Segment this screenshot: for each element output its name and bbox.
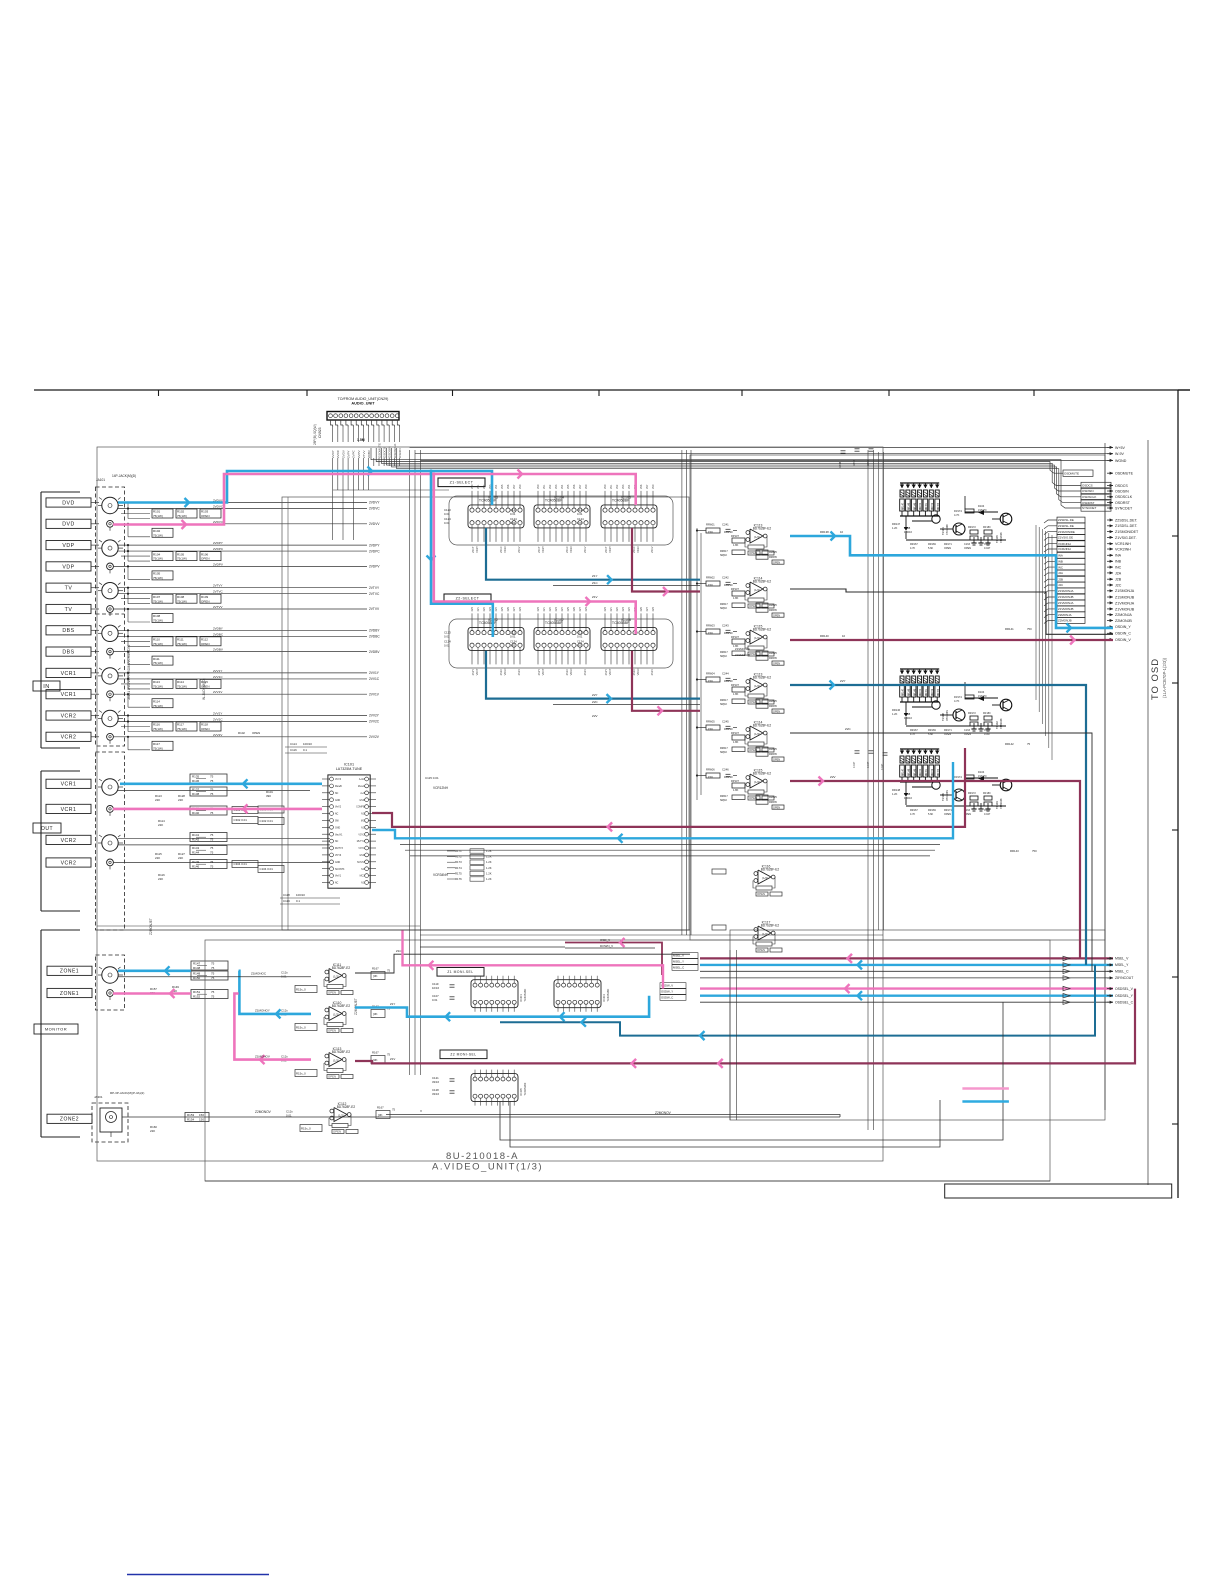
wire OSDIN_Y (blue) bbox=[790, 536, 1113, 628]
svg-text:2S1C: 2S1C bbox=[499, 669, 503, 676]
svg-text:TR102: TR102 bbox=[995, 721, 999, 729]
op-amp IC113 (BD7628F-E2) bbox=[329, 1053, 342, 1067]
svg-text:75(1W): 75(1W) bbox=[153, 576, 163, 580]
svg-text:RP137: RP137 bbox=[731, 731, 739, 735]
svg-text:RP137: RP137 bbox=[731, 779, 739, 783]
wires MSEL/OSDSEL to edge bbox=[700, 957, 1113, 959]
svg-text:RR617: RR617 bbox=[720, 651, 728, 654]
svg-text:Z1SMONJA: Z1SMONJA bbox=[735, 647, 750, 651]
svg-text:OSDSIN: OSDSIN bbox=[1082, 489, 1094, 493]
svg-text:R141: R141 bbox=[192, 833, 200, 837]
svg-text:TR101: TR101 bbox=[941, 527, 945, 535]
svg-text:2V0: 2V0 bbox=[604, 484, 607, 489]
svg-text:RR602: RR602 bbox=[706, 576, 715, 580]
svg-text:RR635: RR635 bbox=[769, 801, 777, 804]
svg-text:750: 750 bbox=[1027, 627, 1032, 631]
svg-text:Z1SMONIDE: Z1SMONIDE bbox=[1058, 530, 1075, 534]
svg-text:2VDPY: 2VDPY bbox=[369, 543, 380, 547]
svg-text:TC4053BF: TC4053BF bbox=[612, 499, 630, 503]
svg-text:75: 75 bbox=[211, 990, 215, 994]
svg-text:OPEN: OPEN bbox=[328, 1075, 336, 1079]
svg-text:75(1W): 75(1W) bbox=[177, 599, 187, 603]
svg-text:RR150: RR150 bbox=[920, 688, 922, 696]
svg-text:Z1VSIG.DET.: Z1VSIG.DET. bbox=[1115, 536, 1137, 540]
wire Z1MONOV (pink) bbox=[113, 992, 191, 995]
svg-text:Z1MONOY: Z1MONOY bbox=[255, 1009, 270, 1013]
svg-text:R154: R154 bbox=[187, 1117, 195, 1121]
svg-text:Z1C: Z1C bbox=[592, 581, 599, 585]
svg-text:2VPC: 2VPC bbox=[352, 449, 356, 458]
svg-text:FR174: FR174 bbox=[954, 695, 962, 699]
svg-text:A+9: A+9 bbox=[360, 792, 365, 795]
svg-text:2S1V: 2S1V bbox=[650, 669, 654, 676]
svg-text:1.5M: 1.5M bbox=[357, 438, 365, 442]
svg-text:4.7K: 4.7K bbox=[910, 813, 915, 816]
svg-text:R171: R171 bbox=[455, 849, 462, 853]
svg-text:RR625: RR625 bbox=[769, 652, 777, 655]
svg-text:33/16: 33/16 bbox=[839, 461, 842, 468]
svg-text:OSDSEL_V: OSDSEL_V bbox=[1115, 987, 1134, 991]
svg-text:RR617: RR617 bbox=[720, 603, 728, 606]
svg-text:OSDCS: OSDCS bbox=[1115, 484, 1128, 488]
svg-text:SCONT3: SCONT3 bbox=[335, 869, 345, 871]
svg-text:RR138: RR138 bbox=[820, 530, 829, 534]
svg-text:2VDC: 2VDC bbox=[336, 449, 340, 458]
svg-text:C163: C163 bbox=[964, 543, 971, 546]
svg-text:Z1SMONJB: Z1SMONJB bbox=[735, 653, 750, 657]
svg-text:2VTVC: 2VTVC bbox=[213, 590, 224, 594]
wire Z2V (maroon) bbox=[632, 651, 700, 711]
svg-text:RR152: RR152 bbox=[932, 502, 934, 510]
svg-text:2V7: 2V7 bbox=[579, 606, 582, 611]
svg-text:VD1C: VD1C bbox=[636, 546, 640, 553]
svg-text:R167: R167 bbox=[372, 967, 379, 971]
svg-text:75: 75 bbox=[210, 811, 214, 815]
svg-text:VCR1INH: VCR1INH bbox=[1115, 542, 1131, 546]
svg-text:SR[1K: SR[1K bbox=[720, 751, 728, 754]
svg-text:RR147: RR147 bbox=[903, 768, 905, 776]
svg-text:MSEL_Y: MSEL_Y bbox=[673, 960, 684, 964]
svg-text:R140: R140 bbox=[192, 811, 200, 815]
wire zone2 out bbox=[386, 1115, 840, 1118]
svg-text:RR148: RR148 bbox=[909, 688, 911, 696]
svg-text:C302 0.01: C302 0.01 bbox=[234, 818, 248, 822]
IC IC304 (TC4053BF) monitor select bbox=[554, 980, 601, 1008]
svg-text:2V0: 2V0 bbox=[519, 606, 522, 611]
svg-text:C243: C243 bbox=[722, 624, 729, 628]
svg-text:MSEL_C: MSEL_C bbox=[1115, 970, 1129, 974]
svg-text:75: 75 bbox=[210, 788, 214, 792]
svg-text:R149: R149 bbox=[193, 972, 201, 976]
svg-text:R116: R116 bbox=[153, 723, 160, 727]
svg-text:OSDSEL_C: OSDSEL_C bbox=[1115, 1001, 1134, 1005]
svg-text:OSDW_C: OSDW_C bbox=[661, 996, 673, 1000]
svg-text:390: 390 bbox=[266, 794, 271, 798]
IN bracket bbox=[40, 492, 42, 748]
svg-text:VCR1: VCR1 bbox=[61, 692, 77, 698]
svg-text:OSDW_Y: OSDW_Y bbox=[661, 990, 673, 994]
svg-text:TC4053BF: TC4053BF bbox=[479, 499, 497, 503]
wire Z2MONOV bbox=[122, 1116, 840, 1118]
svg-text:75(1W): 75(1W) bbox=[177, 727, 187, 731]
svg-text:RR635: RR635 bbox=[769, 556, 777, 559]
svg-text:OSDSEL_Y: OSDSEL_Y bbox=[1115, 994, 1134, 998]
svg-text:2V7: 2V7 bbox=[579, 484, 582, 489]
svg-text:RP-3P-JACK(M)(P-3A)(2): RP-3P-JACK(M)(P-3A)(2) bbox=[110, 1091, 144, 1095]
svg-text:RR625: RR625 bbox=[769, 796, 777, 799]
svg-text:1.8K: 1.8K bbox=[733, 788, 739, 792]
svg-text:2V2: 2V2 bbox=[616, 606, 619, 611]
svg-text:RR147: RR147 bbox=[903, 688, 905, 696]
svg-text:75(1W): 75(1W) bbox=[177, 557, 187, 561]
resistors R147-R152 bbox=[191, 961, 228, 970]
svg-text:RR171: RR171 bbox=[944, 543, 952, 546]
svg-text:75(1W): 75(1W) bbox=[153, 619, 163, 623]
svg-text:2V2: 2V2 bbox=[549, 606, 552, 611]
svg-text:75(1W): 75(1W) bbox=[177, 514, 187, 518]
svg-text:TR103: TR103 bbox=[995, 801, 999, 809]
svg-text:(1/2): (1/2) bbox=[333, 975, 339, 979]
RCA jack bbox=[107, 606, 114, 613]
svg-text:NC: NC bbox=[361, 869, 365, 871]
svg-text:2V0: 2V0 bbox=[652, 606, 655, 611]
svg-text:2V3: 2V3 bbox=[555, 606, 558, 611]
svg-text:VCR12NH: VCR12NH bbox=[433, 786, 449, 790]
svg-text:BD7628F-E2: BD7628F-E2 bbox=[337, 1105, 356, 1109]
S-video jack bbox=[102, 583, 118, 599]
svg-text:R118: R118 bbox=[201, 723, 208, 727]
svg-text:Z1SMONJA: Z1SMONJA bbox=[1115, 589, 1135, 593]
svg-text:J2A: J2A bbox=[1115, 571, 1122, 575]
svg-text:2V3: 2V3 bbox=[622, 484, 625, 489]
RCA jack bbox=[107, 648, 114, 655]
svg-text:Z2SDSL.DE: Z2SDSL.DE bbox=[1058, 518, 1074, 522]
svg-text:1.2K: 1.2K bbox=[486, 860, 492, 864]
svg-text:R102: R102 bbox=[238, 731, 245, 735]
svg-text:2VDPC: 2VDPC bbox=[213, 547, 224, 551]
resistor network RR147 bbox=[900, 482, 939, 484]
svg-text:VOY1: VOY1 bbox=[358, 848, 365, 850]
wires mid black bundle bbox=[400, 844, 940, 846]
svg-text:INB: INB bbox=[1058, 560, 1063, 564]
svg-text:(1/2): (1/2) bbox=[754, 684, 760, 688]
svg-text:0.01: 0.01 bbox=[577, 634, 583, 638]
svg-text:Z1-SELECT: Z1-SELECT bbox=[450, 481, 474, 485]
wire blue branch to Z2 select bbox=[431, 471, 493, 637]
svg-text:VD1Y: VD1Y bbox=[608, 668, 612, 675]
svg-text:75(1W): 75(1W) bbox=[153, 746, 163, 750]
op-amp IC117 (BD7628F-E2) bbox=[758, 926, 771, 940]
svg-text:2V1: 2V1 bbox=[543, 484, 546, 489]
svg-text:IC101: IC101 bbox=[344, 763, 354, 767]
label VCR2 bbox=[46, 711, 91, 720]
svg-text:2S1Y: 2S1Y bbox=[471, 546, 475, 553]
svg-text:0.01: 0.01 bbox=[510, 521, 516, 525]
svg-text:0.01: 0.01 bbox=[577, 512, 583, 516]
svg-text:VinY1: VinY1 bbox=[335, 876, 342, 878]
svg-text:VD1C: VD1C bbox=[503, 546, 507, 553]
svg-text:2VDBV: 2VDBV bbox=[369, 650, 380, 654]
svg-text:2VDPV: 2VDPV bbox=[369, 565, 380, 569]
svg-text:28P(B)-SQ(W): 28P(B)-SQ(W) bbox=[313, 424, 317, 445]
label VDP bbox=[46, 541, 91, 550]
svg-text:KTB1048: KTB1048 bbox=[1000, 798, 1003, 809]
svg-text:1.2K: 1.2K bbox=[892, 712, 898, 716]
svg-text:1.8K: 1.8K bbox=[733, 596, 739, 600]
IC IC305 (TC4053BF) monitor select bbox=[471, 1074, 518, 1102]
op-amp IC115 (BD7628F-E2) bbox=[750, 630, 763, 644]
svg-text:VoutY1: VoutY1 bbox=[335, 833, 343, 836]
label VCR1 bbox=[46, 690, 91, 699]
svg-text:150: 150 bbox=[708, 775, 713, 779]
svg-text:SR[1K: SR[1K bbox=[720, 554, 728, 557]
svg-text:OPEN: OPEN bbox=[328, 1029, 336, 1033]
svg-text:75(1W): 75(1W) bbox=[177, 642, 187, 646]
svg-text:2VV1V: 2VV1V bbox=[213, 690, 222, 694]
svg-text:0.01: 0.01 bbox=[577, 643, 583, 647]
svg-text:1.2K: 1.2K bbox=[892, 526, 898, 530]
svg-text:VD1C: VD1C bbox=[569, 668, 573, 675]
svg-text:COMPB: COMPB bbox=[356, 807, 365, 809]
svg-text:R110: R110 bbox=[153, 638, 160, 642]
svg-text:2S1C: 2S1C bbox=[565, 546, 569, 553]
svg-text:RR146: RR146 bbox=[892, 708, 901, 712]
svg-text:OSDRST: OSDRST bbox=[1115, 501, 1131, 505]
svg-text:BD7628F-E2: BD7628F-E2 bbox=[332, 1050, 351, 1054]
svg-text:TO OSD: TO OSD bbox=[1150, 658, 1161, 700]
svg-text:10: 10 bbox=[840, 530, 844, 534]
svg-text:75(1W): 75(1W) bbox=[153, 704, 163, 708]
svg-text:(1/2): (1/2) bbox=[338, 1114, 344, 1118]
svg-text:100/16: 100/16 bbox=[904, 716, 912, 720]
svg-text:2V0: 2V0 bbox=[471, 484, 474, 489]
svg-text:RR635: RR635 bbox=[769, 705, 777, 708]
svg-text:TC4053BF: TC4053BF bbox=[612, 621, 630, 625]
wire 2VDY DVD video (blue) bbox=[118, 471, 492, 505]
svg-text:RR151: RR151 bbox=[926, 768, 928, 776]
IC IC104 (TC4053BF) video switch bbox=[534, 505, 590, 528]
svg-text:R142: R142 bbox=[192, 837, 200, 841]
svg-text:RR148: RR148 bbox=[909, 502, 911, 510]
svg-text:R173: R173 bbox=[455, 860, 462, 864]
svg-text:RR143: RR143 bbox=[1010, 849, 1019, 853]
svg-text:RR152: RR152 bbox=[932, 688, 934, 696]
svg-text:Z1VMONJB: Z1VMONJB bbox=[1115, 607, 1135, 611]
svg-text:R102: R102 bbox=[153, 529, 161, 533]
svg-text:75: 75 bbox=[211, 966, 215, 970]
svg-text:FR180: FR180 bbox=[983, 526, 991, 529]
svg-text:DVD: DVD bbox=[62, 522, 74, 528]
svg-text:2V7: 2V7 bbox=[513, 484, 516, 489]
svg-text:RR625: RR625 bbox=[769, 700, 777, 703]
svg-text:2S1C: 2S1C bbox=[565, 669, 569, 676]
svg-text:2V1: 2V1 bbox=[477, 484, 480, 489]
label Z1 MONI-SEL bbox=[437, 968, 484, 977]
svg-text:2VTVV: 2VTVV bbox=[213, 605, 223, 609]
op-amp IC110 (BD7628F-E2) bbox=[329, 1007, 342, 1021]
svg-text:75: 75 bbox=[210, 860, 214, 864]
svg-text:RR148: RR148 bbox=[909, 768, 911, 776]
svg-text:R102: R102 bbox=[177, 510, 185, 514]
svg-text:MONITOR: MONITOR bbox=[45, 1026, 67, 1031]
svg-text:R15x_0: R15x_0 bbox=[296, 1072, 306, 1076]
svg-text:2V6: 2V6 bbox=[640, 484, 643, 489]
svg-text:OPEN: OPEN bbox=[201, 557, 210, 561]
svg-text:75: 75 bbox=[387, 1053, 391, 1057]
svg-text:4.7K: 4.7K bbox=[910, 547, 915, 550]
svg-text:750: 750 bbox=[1032, 849, 1037, 853]
label ZONE1 bbox=[47, 966, 92, 975]
svg-text:2V0: 2V0 bbox=[537, 484, 540, 489]
svg-text:75: 75 bbox=[392, 1108, 396, 1112]
label Z2-SELECT bbox=[444, 594, 491, 603]
svg-text:R104: R104 bbox=[153, 552, 161, 556]
svg-text:R135: R135 bbox=[192, 775, 200, 779]
svg-text:OPEN: OPEN bbox=[944, 813, 951, 816]
svg-text:TC4053BF: TC4053BF bbox=[479, 621, 497, 625]
svg-text:75: 75 bbox=[211, 962, 215, 966]
svg-text:RP137: RP137 bbox=[731, 683, 739, 687]
svg-text:BD7628F-E2: BD7628F-E2 bbox=[753, 676, 772, 680]
svg-text:OPEN: OPEN bbox=[773, 561, 780, 564]
svg-text:R167: R167 bbox=[377, 1106, 384, 1110]
svg-text:OPEN: OPEN bbox=[944, 547, 951, 550]
resistors R135-R140 bbox=[190, 774, 227, 783]
svg-text:2VV1Y: 2VV1Y bbox=[213, 669, 222, 673]
svg-text:GND: GND bbox=[335, 862, 340, 864]
wire 2VDV DVD video (pink) bbox=[113, 474, 636, 525]
label Z1-SELECT bbox=[438, 478, 485, 487]
svg-text:2VDBY: 2VDBY bbox=[213, 626, 223, 630]
svg-text:OPEN: OPEN bbox=[201, 727, 210, 731]
svg-text:MSEL_C: MSEL_C bbox=[673, 966, 684, 970]
dashed enclosure JA101 input jacks bbox=[96, 487, 125, 746]
MSEL label boxes bbox=[672, 953, 698, 959]
svg-text:RR625: RR625 bbox=[769, 604, 777, 607]
label OUT bbox=[33, 823, 61, 833]
svg-text:TC4053BF: TC4053BF bbox=[523, 988, 527, 1001]
svg-text:2V6: 2V6 bbox=[507, 606, 510, 611]
svg-text:Z1VMONJB: Z1VMONJB bbox=[1058, 607, 1073, 611]
svg-text:WGND: WGND bbox=[1115, 459, 1127, 463]
RCA jack bbox=[107, 806, 114, 813]
svg-text:SCNT2: SCNT2 bbox=[357, 862, 365, 864]
svg-text:OSDSIN: OSDSIN bbox=[1115, 489, 1129, 493]
svg-text:OSDIN_Y: OSDIN_Y bbox=[1115, 625, 1131, 629]
svg-text:VCR1: VCR1 bbox=[61, 782, 77, 788]
IC IC101 (LA7325M) video amp bbox=[328, 775, 370, 888]
svg-text:C114: C114 bbox=[290, 742, 297, 746]
svg-text:R172: R172 bbox=[455, 855, 462, 859]
svg-text:OPEN: OPEN bbox=[757, 948, 765, 952]
svg-text:D104: D104 bbox=[978, 504, 985, 508]
svg-text:[3K: [3K bbox=[378, 1113, 383, 1117]
svg-text:R107: R107 bbox=[153, 595, 161, 599]
svg-text:2V0: 2V0 bbox=[585, 484, 588, 489]
svg-text:FR174: FR174 bbox=[954, 775, 962, 779]
svg-text:TV: TV bbox=[65, 586, 73, 592]
svg-text:BD7628F-E2: BD7628F-E2 bbox=[332, 966, 351, 970]
svg-text:RR150: RR150 bbox=[920, 502, 922, 510]
svg-text:INA: INA bbox=[1115, 554, 1122, 558]
svg-text:Z1SMONJB: Z1SMONJB bbox=[1058, 595, 1073, 599]
svg-text:2S1V: 2S1V bbox=[517, 546, 521, 553]
svg-text:VD1C: VD1C bbox=[503, 668, 507, 675]
svg-text:Z8YNCOUT: Z8YNCOUT bbox=[1115, 976, 1133, 980]
svg-text:C245: C245 bbox=[722, 720, 729, 724]
svg-text:1.8K: 1.8K bbox=[733, 692, 739, 696]
svg-text:0.047: 0.047 bbox=[853, 761, 856, 768]
svg-text:75: 75 bbox=[210, 850, 214, 854]
op-amp IC114 (BD7628F-E2) bbox=[750, 582, 763, 596]
svg-text:Z1VSIG.DE: Z1VSIG.DE bbox=[1058, 536, 1073, 540]
svg-text:RR150: RR150 bbox=[920, 768, 922, 776]
svg-text:2V0: 2V0 bbox=[537, 606, 540, 611]
svg-text:C242: C242 bbox=[722, 576, 729, 580]
S-video jack bbox=[102, 710, 118, 726]
svg-text:VOY2: VOY2 bbox=[358, 834, 365, 836]
wire moni navy bbox=[500, 965, 1095, 1036]
svg-text:0.01: 0.01 bbox=[444, 643, 450, 647]
svg-text:(1/2): (1/2) bbox=[754, 732, 760, 736]
svg-text:33/16: 33/16 bbox=[432, 1092, 439, 1096]
svg-text:GND: GND bbox=[335, 800, 340, 802]
wire VCR2 out bbox=[118, 837, 330, 839]
svg-text:4.7K: 4.7K bbox=[954, 699, 960, 703]
svg-text:FR180: FR180 bbox=[983, 792, 991, 795]
svg-text:(1/2): (1/2) bbox=[754, 535, 760, 539]
svg-text:2VTVC: 2VTVC bbox=[369, 592, 380, 596]
svg-text:JA101: JA101 bbox=[96, 478, 105, 482]
svg-text:VD1Y: VD1Y bbox=[541, 546, 545, 553]
svg-text:(1/2): (1/2) bbox=[333, 1059, 339, 1063]
svg-text:RR147: RR147 bbox=[892, 522, 901, 526]
IC IC301 (TC4053BF) monitor select bbox=[471, 980, 518, 1008]
capacitors C301-C304 bbox=[232, 807, 258, 814]
svg-text:2V5: 2V5 bbox=[501, 484, 504, 489]
svg-text:RR635: RR635 bbox=[769, 609, 777, 612]
enclosure boxes bbox=[282, 497, 689, 930]
S-video jack bbox=[102, 779, 118, 795]
svg-text:150: 150 bbox=[708, 631, 713, 635]
legend pink line bbox=[962, 1087, 1009, 1090]
svg-text:R167: R167 bbox=[372, 1051, 379, 1055]
svg-text:OSDIN_V: OSDIN_V bbox=[1115, 638, 1131, 642]
svg-text:(1/2): (1/2) bbox=[333, 1013, 339, 1017]
svg-text:14P-JACK(M)(D): 14P-JACK(M)(D) bbox=[112, 474, 136, 478]
svg-text:75: 75 bbox=[387, 969, 391, 973]
svg-text:Z1SDSL.DE: Z1SDSL.DE bbox=[1058, 524, 1074, 528]
svg-text:[3K: [3K bbox=[373, 974, 378, 978]
svg-text:R111: R111 bbox=[153, 657, 160, 661]
svg-text:2V2: 2V2 bbox=[549, 484, 552, 489]
svg-text:2V6: 2V6 bbox=[573, 484, 576, 489]
svg-text:BD7628F-E2: BD7628F-E2 bbox=[761, 924, 780, 928]
svg-text:2S1Y: 2S1Y bbox=[537, 546, 541, 553]
svg-text:IN: IN bbox=[43, 684, 50, 690]
svg-text:RR635: RR635 bbox=[769, 753, 777, 756]
svg-text:Z1SMONJB: Z1SMONJB bbox=[1115, 595, 1135, 599]
svg-text:Z1SMONJA: Z1SMONJA bbox=[1058, 589, 1073, 593]
svg-text:RR169: RR169 bbox=[928, 809, 936, 812]
svg-text:2V4: 2V4 bbox=[628, 484, 631, 489]
svg-text:RR153: RR153 bbox=[938, 502, 940, 510]
svg-text:VD1Y: VD1Y bbox=[475, 668, 479, 675]
svg-text:0.01: 0.01 bbox=[510, 512, 516, 516]
svg-text:100/10: 100/10 bbox=[303, 742, 312, 746]
svg-text:OPEN: OPEN bbox=[773, 758, 780, 761]
svg-text:1.2K: 1.2K bbox=[486, 855, 492, 859]
